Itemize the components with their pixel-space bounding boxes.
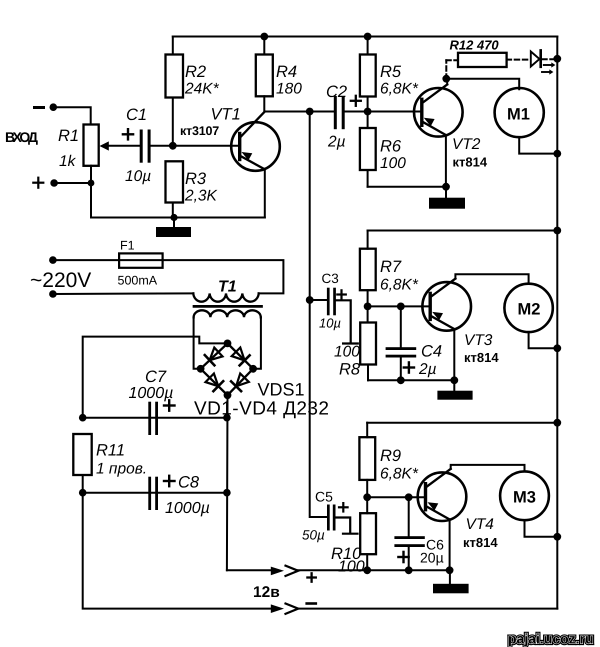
- resistor R8: [360, 306, 376, 380]
- wire dashed to R12: [446, 60, 458, 78]
- junction signal bus C3 tap: [306, 296, 314, 304]
- wire stage2 bottom: [368, 379, 454, 381]
- svg-text:VT3: VT3: [464, 332, 493, 349]
- junction C4 top: [397, 303, 405, 311]
- capacitor C2: [334, 96, 345, 129]
- junction ground stem: [170, 214, 177, 221]
- junction C7 right: [223, 414, 231, 422]
- wire C5 to R10 tap: [336, 518, 358, 534]
- wire input minus to R1 top: [53, 107, 90, 124]
- junction R7 R8 base node: [364, 303, 372, 311]
- label C1 plus: [123, 129, 133, 139]
- wire R6 bottom to VT2 emitter: [368, 186, 446, 188]
- svg-text:C7: C7: [145, 368, 167, 386]
- diode VD3: [206, 374, 224, 392]
- wire M2 bottom to right bus: [529, 332, 558, 348]
- junction stage3 rail right bus: [553, 419, 561, 427]
- resistor R5: [360, 33, 376, 112]
- wire VT1 collector node to C2: [265, 111, 335, 113]
- diode VD2: [232, 348, 250, 366]
- capacitor C4: [386, 306, 417, 380]
- resistor R1: [84, 125, 99, 166]
- svg-text:6,8K*: 6,8K*: [380, 466, 419, 483]
- wire VT4 emitter to motor M3: [451, 465, 525, 472]
- resistor R9: [359, 423, 375, 498]
- ground G4: [433, 570, 469, 593]
- svg-text:20µ: 20µ: [420, 550, 444, 566]
- connector X1 plus arrow: [271, 566, 298, 576]
- svg-text:50µ: 50µ: [302, 528, 325, 543]
- svg-text:2,3K: 2,3K: [184, 188, 218, 205]
- label plus 12v: [307, 573, 315, 581]
- svg-text:R11: R11: [96, 442, 125, 460]
- svg-text:VT1: VT1: [211, 106, 241, 124]
- label minus 12v: [307, 602, 316, 605]
- wire base node to VT4: [367, 496, 425, 498]
- label C6 plus: [398, 552, 408, 562]
- svg-text:~220V: ~220V: [30, 269, 91, 292]
- transistor VT3: [422, 279, 471, 381]
- wire C2 to VT2 base: [345, 111, 421, 113]
- svg-text:М2: М2: [518, 301, 541, 319]
- diode VD1: [205, 348, 223, 366]
- svg-text:C8: C8: [178, 474, 200, 492]
- junction bridge bottom corner: [224, 391, 232, 399]
- junction R9 R10 base node: [363, 493, 371, 501]
- fuse F1: [119, 253, 163, 267]
- resistor R11: [73, 434, 91, 493]
- svg-text:R8: R8: [339, 361, 361, 379]
- resistor R7: [360, 231, 376, 307]
- svg-text:100: 100: [338, 559, 365, 576]
- junction M2 right bus: [553, 344, 561, 352]
- svg-text:pajai.ucoz.ru: pajai.ucoz.ru: [508, 631, 594, 647]
- junction C7 left: [79, 414, 87, 422]
- junction VT2 emitter top node: [442, 75, 450, 83]
- wire ground rail of input stage: [91, 217, 265, 219]
- svg-text:R1: R1: [58, 127, 79, 145]
- svg-text:ВХОД: ВХОД: [5, 129, 38, 145]
- wire mains top to transformer primary right: [53, 260, 284, 293]
- motor M1: [495, 88, 544, 137]
- wire right bus vertical: [556, 37, 558, 609]
- label C8 plus: [164, 476, 175, 486]
- wire M1 bottom to right bus: [519, 137, 557, 153]
- svg-text:10µ: 10µ: [319, 316, 341, 331]
- junction M1 right bus: [553, 150, 561, 158]
- capacitor C7: [148, 402, 158, 435]
- svg-text:C1: C1: [126, 106, 147, 124]
- svg-text:VT4: VT4: [466, 516, 495, 533]
- svg-text:100: 100: [334, 344, 360, 361]
- svg-text:180: 180: [276, 81, 302, 98]
- wire plus connector to output stage: [298, 569, 450, 571]
- label LED arrows: [542, 62, 555, 74]
- wire positive bus corner to plus connector: [227, 569, 271, 571]
- capacitor C1: [140, 130, 151, 163]
- node input plus terminal: [33, 178, 58, 188]
- wire minus connector to right bus: [298, 608, 558, 610]
- wire secondary left lead to bridge left corner: [194, 317, 201, 369]
- wire secondary right lead to bridge right corner: [253, 317, 261, 369]
- svg-text:R2: R2: [185, 63, 206, 81]
- svg-text:12в: 12в: [253, 584, 280, 601]
- node mains bottom terminal: [49, 290, 57, 298]
- svg-text:М3: М3: [513, 489, 536, 507]
- svg-text:C5: C5: [315, 489, 333, 505]
- resistor R10: [360, 497, 376, 570]
- transformer T1 secondary winding: [194, 310, 261, 317]
- junction VT4 collector ground: [446, 566, 454, 574]
- diode LED HL1: [531, 50, 541, 66]
- capacitor C8: [148, 477, 158, 510]
- svg-text:М1: М1: [507, 106, 530, 124]
- junction bridge top corner: [224, 340, 232, 348]
- wire dashed LED to bus: [543, 58, 558, 60]
- junction C6 top: [405, 493, 413, 501]
- wire base node to VT3: [368, 305, 430, 307]
- diode VD4: [231, 374, 249, 392]
- svg-text:кт814: кт814: [453, 155, 488, 170]
- label C5 plus: [339, 503, 348, 511]
- motor M3: [500, 471, 549, 520]
- transistor VT1: [231, 112, 280, 218]
- svg-text:100: 100: [380, 155, 406, 172]
- svg-text:R7: R7: [380, 258, 402, 276]
- ground G2: [429, 187, 465, 209]
- wire M3 bottom to right bus: [525, 520, 558, 537]
- svg-text:24K*: 24K*: [184, 81, 220, 98]
- svg-text:1000µ: 1000µ: [165, 500, 210, 517]
- label C7 plus: [164, 400, 175, 410]
- capacitor C5: [327, 505, 336, 531]
- svg-text:F1: F1: [120, 239, 135, 253]
- junction C4 bottom: [397, 376, 405, 384]
- wire C7 filter link: [83, 417, 227, 419]
- svg-text:1k: 1k: [59, 153, 77, 170]
- junction bridge right corner: [249, 365, 257, 373]
- svg-text:R4: R4: [276, 63, 297, 81]
- junction R1 bottom / plus wire: [88, 180, 95, 187]
- junction C8 right: [223, 489, 231, 497]
- svg-text:C2: C2: [326, 83, 347, 101]
- svg-text:2µ: 2µ: [327, 134, 346, 151]
- wire signal bus vertical: [310, 112, 328, 518]
- junction R10 bottom: [363, 566, 371, 574]
- svg-text:R3: R3: [185, 170, 207, 188]
- svg-text:R9: R9: [380, 447, 401, 465]
- wire C8 filter link: [83, 492, 227, 494]
- resistor R3: [166, 161, 184, 217]
- junction M3 right bus: [553, 533, 561, 541]
- junction bridge left corner: [197, 365, 205, 373]
- svg-text:кт814: кт814: [463, 535, 498, 550]
- resistor R4: [256, 33, 273, 112]
- transformer T1 primary winding: [193, 293, 258, 301]
- junction signal bus top: [306, 108, 314, 116]
- bridge rectifier VDS1 frame: [201, 343, 254, 395]
- wire input plus to R1 bottom: [54, 182, 91, 184]
- wire mains bottom to transformer primary left: [53, 292, 193, 295]
- label C3 plus: [337, 290, 346, 298]
- svg-text:R12 470: R12 470: [450, 38, 500, 53]
- svg-text:2µ: 2µ: [418, 361, 437, 378]
- svg-text:1 пров.: 1 пров.: [96, 461, 147, 478]
- resistor R2: [166, 37, 184, 146]
- wire bridge top corner to left bus: [83, 337, 228, 418]
- svg-text:1000µ: 1000µ: [129, 385, 174, 402]
- junction C6 bottom: [405, 566, 413, 574]
- junction C8 left: [79, 489, 87, 497]
- junction stage2 rail right bus: [553, 227, 561, 235]
- transformer T1 core: [194, 305, 262, 308]
- junction R5 R6 base node: [364, 108, 372, 116]
- connector X1 minus arrow: [271, 604, 298, 614]
- wire left bus down to minus connector: [83, 493, 271, 609]
- svg-text:T1: T1: [218, 279, 237, 296]
- svg-text:кт814: кт814: [464, 350, 499, 365]
- wire R1 wiper arrow to C1: [100, 141, 141, 150]
- transistor VT2: [414, 79, 463, 187]
- wire stage2 top rail: [368, 230, 558, 232]
- svg-text:6,8K*: 6,8K*: [380, 277, 419, 294]
- junction VT3 collector ground: [450, 376, 458, 384]
- svg-text:C4: C4: [421, 343, 442, 361]
- svg-text:кт3107: кт3107: [180, 124, 219, 138]
- wire stage3 top rail: [367, 422, 557, 424]
- junction LED to right bus: [553, 55, 561, 63]
- capacitor C3: [327, 288, 336, 316]
- svg-text:VT2: VT2: [452, 136, 481, 153]
- resistor R12: [458, 53, 507, 67]
- junction VT2 emitter ground: [442, 183, 450, 191]
- junction base node R2 R3 C1: [169, 142, 177, 150]
- svg-text:10µ: 10µ: [125, 168, 151, 185]
- wire dashed R12 to LED: [507, 59, 530, 61]
- wire R1 bottom lead down: [90, 166, 92, 218]
- node mains top terminal: [49, 256, 57, 264]
- ground G3: [437, 380, 472, 399]
- svg-text:R5: R5: [380, 63, 402, 81]
- wire VT3 emitter to motor M2: [455, 274, 528, 284]
- resistor R6: [360, 112, 376, 187]
- svg-text:VD1-VD4 Д232: VD1-VD4 Д232: [194, 399, 329, 420]
- wire top supply rail: [173, 36, 558, 38]
- svg-text:VDS1: VDS1: [258, 380, 305, 400]
- transistor VT4: [418, 469, 467, 570]
- wire C1 right plate to VT1 base: [151, 145, 239, 147]
- svg-text:6,8K*: 6,8K*: [380, 81, 419, 98]
- node input minus terminal: [35, 103, 58, 111]
- label C2 plus: [351, 96, 361, 106]
- wire bridge bottom corner down positive bus: [226, 395, 229, 570]
- capacitor C6: [394, 497, 424, 570]
- ground G1: [156, 218, 191, 238]
- svg-text:R6: R6: [380, 138, 402, 156]
- wire C3 to R8 tap: [336, 300, 358, 343]
- label watermark pajai.ucoz.ru: [508, 631, 594, 647]
- wire VT2 emitter to motor M1: [446, 79, 519, 90]
- svg-text:500mA: 500mA: [118, 274, 158, 288]
- svg-text:C3: C3: [322, 271, 339, 286]
- label C4 plus: [404, 362, 414, 372]
- wire bus to C3: [310, 299, 327, 301]
- motor M2: [504, 284, 552, 332]
